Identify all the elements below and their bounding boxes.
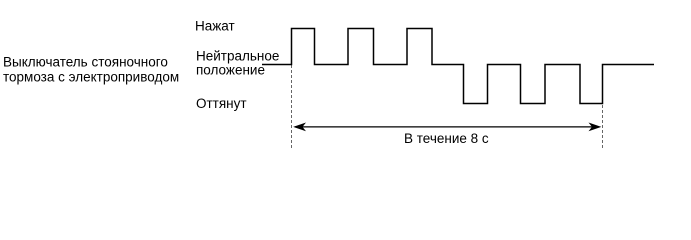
- arrowhead right: [589, 123, 602, 132]
- svg-text:Нажат: Нажат: [195, 19, 235, 34]
- node: interval end dashed line: [602, 65, 604, 148]
- svg-text:положение: положение: [196, 63, 265, 78]
- wire: duration arrow shaft: [295, 126, 599, 128]
- svg-text:тормоза с электроприводом: тормоза с электроприводом: [3, 70, 179, 85]
- wire: switch signal waveform: [262, 29, 654, 104]
- svg-text:В течение 8 с: В течение 8 с: [404, 131, 489, 146]
- svg-text:Оттянут: Оттянут: [196, 96, 247, 111]
- svg-text:Нейтральное: Нейтральное: [196, 49, 279, 64]
- svg-text:Выключатель стояночного: Выключатель стояночного: [3, 54, 168, 69]
- node: interval start dashed line: [291, 65, 293, 148]
- arrowhead left: [293, 123, 306, 132]
